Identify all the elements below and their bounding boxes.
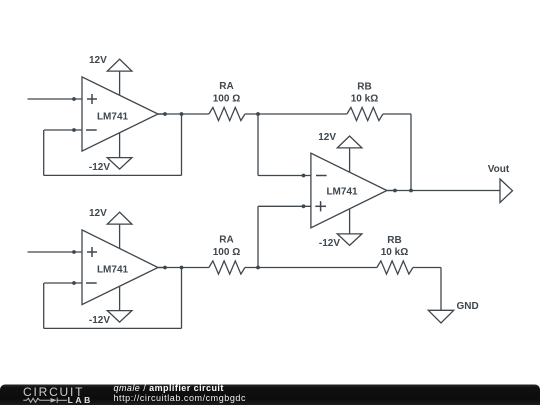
node U3 out dot bbox=[393, 189, 397, 193]
resistor RA2 bbox=[209, 261, 245, 274]
node A junction bbox=[256, 112, 260, 116]
ground GND bbox=[428, 301, 478, 323]
node U2 feedback junction bbox=[180, 266, 184, 270]
svg-text:LM741: LM741 bbox=[97, 112, 129, 123]
op-amp U3 bbox=[311, 148, 395, 234]
svg-text:LM741: LM741 bbox=[326, 186, 358, 197]
svg-text:RB: RB bbox=[387, 235, 401, 246]
svg-text:10 kΩ: 10 kΩ bbox=[351, 94, 378, 105]
power +12V U3 bbox=[318, 132, 362, 148]
power +12V U2 bbox=[89, 208, 132, 224]
op-amp U2 bbox=[82, 224, 165, 311]
svg-text:100 Ω: 100 Ω bbox=[213, 247, 240, 258]
svg-text:100 Ω: 100 Ω bbox=[213, 94, 240, 105]
wire U1 output to RA bbox=[158, 113, 209, 115]
wire U3 output to Vout bbox=[387, 190, 500, 192]
footer bar bbox=[0, 385, 540, 405]
svg-text:LAB: LAB bbox=[68, 395, 93, 405]
svg-text:RB: RB bbox=[357, 82, 371, 93]
op-amp U1 bbox=[82, 71, 165, 158]
wire node B vertical up bbox=[257, 206, 259, 267]
wire U1 feedback bottom bbox=[44, 174, 182, 176]
resistor RB1 bbox=[347, 107, 383, 120]
node U1 feedback junction bbox=[180, 112, 184, 116]
node U3 feedback junction bbox=[409, 189, 413, 193]
node U2 +in dot bbox=[72, 250, 76, 254]
svg-text:Vout: Vout bbox=[488, 164, 510, 175]
svg-text:12V: 12V bbox=[318, 132, 336, 143]
wire U2 feedback left vertical bbox=[43, 283, 45, 328]
svg-text:LM741: LM741 bbox=[97, 265, 129, 276]
wire node A vertical down bbox=[257, 114, 259, 176]
node B junction bbox=[256, 266, 260, 270]
power +12V U1 bbox=[89, 55, 132, 71]
wire down to ground bbox=[440, 268, 442, 311]
svg-text:RA: RA bbox=[219, 81, 233, 92]
node U3 -in dot bbox=[302, 174, 306, 178]
resistor RB2 bbox=[377, 261, 413, 274]
wire U2 output to RA2 bbox=[158, 267, 209, 269]
svg-text:RA: RA bbox=[219, 235, 233, 246]
wire to U3 + input bbox=[258, 205, 311, 207]
node U1 -in dot bbox=[72, 128, 76, 132]
wire U2 feedback right vertical bbox=[181, 268, 183, 329]
wire input to U1 + bbox=[28, 98, 83, 100]
svg-text:-12V: -12V bbox=[89, 315, 110, 326]
svg-text:-12V: -12V bbox=[89, 162, 110, 173]
node U3 +in dot bbox=[302, 204, 306, 208]
logo squiggle bbox=[23, 398, 67, 403]
wire U1 - input stub bbox=[44, 129, 82, 131]
wire U1 feedback left vertical bbox=[43, 130, 45, 175]
power -12V U1 bbox=[89, 158, 132, 173]
wire RA2 to RB2 bbox=[245, 267, 377, 269]
svg-text:12V: 12V bbox=[89, 55, 107, 66]
resistor RA1 bbox=[209, 107, 245, 120]
node U1 +in dot bbox=[72, 97, 76, 101]
svg-text:10 kΩ: 10 kΩ bbox=[381, 247, 408, 258]
wire RB1 right lead bbox=[383, 113, 411, 115]
svg-text:http://circuitlab.com/cmgbgdc: http://circuitlab.com/cmgbgdc bbox=[114, 393, 247, 403]
svg-text:qmale / amplifier circuit: qmale / amplifier circuit bbox=[114, 383, 224, 393]
wire input to U2 + bbox=[28, 251, 83, 253]
svg-text:12V: 12V bbox=[89, 208, 107, 219]
svg-text:-12V: -12V bbox=[319, 238, 340, 249]
power -12V U3 bbox=[319, 234, 362, 249]
node U1 out dot bbox=[163, 112, 167, 116]
power -12V U2 bbox=[89, 311, 132, 326]
node U2 -in dot bbox=[72, 281, 76, 285]
node U2 out dot bbox=[163, 266, 167, 270]
wire RB1 down to U3 output bbox=[410, 114, 412, 191]
wire U2 feedback bottom bbox=[44, 327, 182, 329]
wire RA1 to RB1 bbox=[245, 113, 347, 115]
wire U1 feedback right vertical bbox=[181, 114, 183, 175]
output flag Vout bbox=[488, 164, 513, 203]
wire U2 - input stub bbox=[44, 282, 82, 284]
svg-text:GND: GND bbox=[457, 301, 479, 312]
wire to U3 - input bbox=[258, 175, 311, 177]
wire RB2 right lead bbox=[413, 267, 441, 269]
